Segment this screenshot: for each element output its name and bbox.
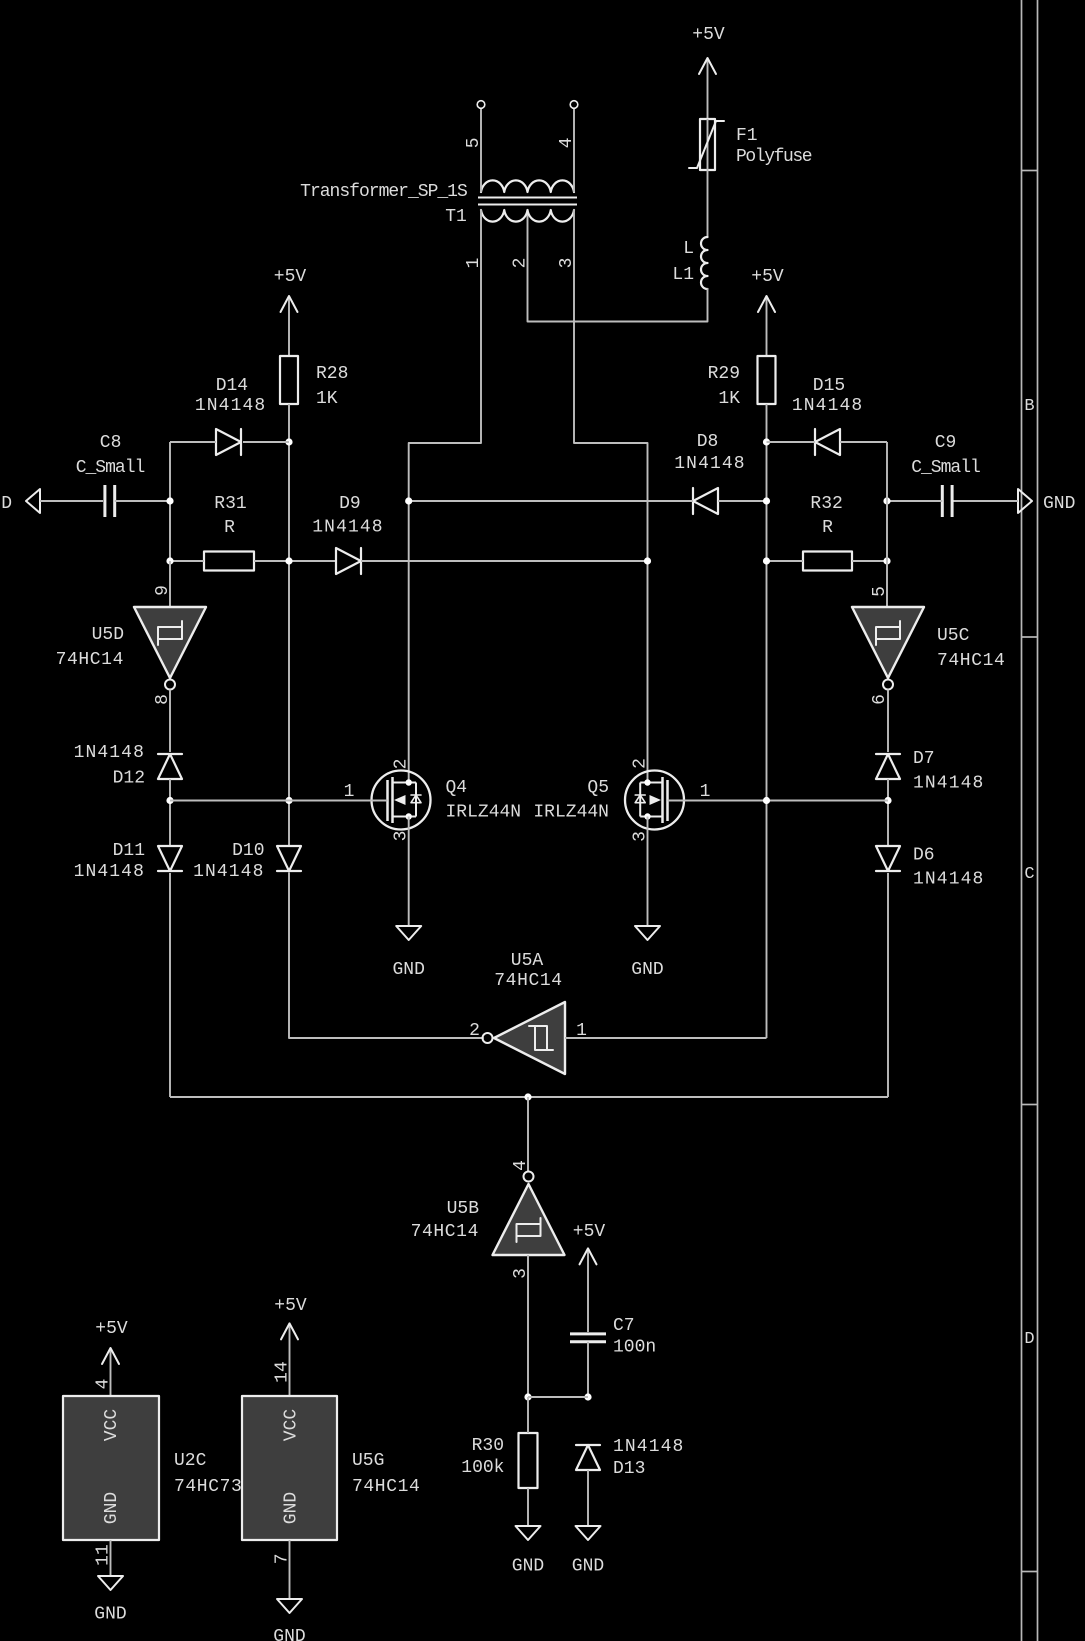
svg-text:74HC73: 74HC73 <box>174 1477 242 1497</box>
svg-text:GND: GND <box>0 494 12 514</box>
power +5V (R28) <box>288 296 290 356</box>
wire bottom bus <box>170 1096 888 1098</box>
wire U5G pin7 to GND <box>289 1540 291 1599</box>
svg-text:1N4148: 1N4148 <box>674 454 745 474</box>
svg-text:R31: R31 <box>214 494 246 514</box>
power +5V (R29) <box>766 296 768 356</box>
svg-text:1N4148: 1N4148 <box>913 774 984 794</box>
svg-text:1: 1 <box>344 782 355 802</box>
wire C8 to U5D input column <box>115 500 170 502</box>
junction bottom bus / U5B output column <box>524 1093 531 1100</box>
svg-text:+5V: +5V <box>274 1296 307 1316</box>
T1 pin 4 lead and open end <box>573 109 575 193</box>
svg-text:C9: C9 <box>935 433 957 453</box>
svg-text:1N4148: 1N4148 <box>613 1437 684 1457</box>
wire D14 cathode to junction <box>243 441 289 443</box>
power GND (U5G) <box>277 1599 302 1613</box>
transistor Q4 (IRLZ44N) symbol <box>372 771 431 830</box>
wire U5D input column upper <box>169 442 171 561</box>
svg-text:74HC14: 74HC14 <box>411 1222 479 1242</box>
svg-text:R: R <box>224 518 235 538</box>
svg-text:L1: L1 <box>672 265 694 285</box>
wire bus to U5B output <box>527 1097 529 1172</box>
svg-text:U5B: U5B <box>447 1199 480 1219</box>
svg-text:74HC14: 74HC14 <box>352 1477 420 1497</box>
wire R30 top <box>527 1397 529 1433</box>
svg-text:+5V: +5V <box>573 1222 606 1242</box>
wire Q4 gate row <box>170 800 388 802</box>
svg-text:Q4: Q4 <box>446 778 468 798</box>
svg-text:VCC: VCC <box>282 1409 302 1442</box>
wire D6 to bottom bus <box>887 873 889 1097</box>
IC U2C power unit box <box>63 1396 159 1540</box>
wire Q4 drain column to D8 cathode <box>409 500 693 502</box>
diode D6 symbol <box>876 846 900 871</box>
svg-text:2: 2 <box>469 1021 480 1041</box>
diode D12 symbol <box>158 754 182 779</box>
svg-text:74HC14: 74HC14 <box>56 650 124 670</box>
resistor R31 symbol <box>204 552 254 571</box>
wire R28 bottom to D14/D10 column <box>288 404 290 846</box>
svg-text:100n: 100n <box>613 1338 656 1358</box>
resistor R30 symbol <box>519 1433 538 1488</box>
diode D8 symbol <box>693 488 718 514</box>
polyfuse F1 symbol <box>700 119 715 170</box>
wire junction row <box>528 1396 588 1398</box>
wire D15 anode to U5C input column <box>840 441 887 443</box>
wire R30 to GND <box>527 1488 529 1526</box>
svg-text:IRLZ44N: IRLZ44N <box>446 803 522 823</box>
capacitor C9 symbol <box>941 485 944 517</box>
svg-text:6: 6 <box>870 694 890 705</box>
junction Q5 gate / R29 column <box>763 797 770 804</box>
sheet border tick A/B <box>1022 170 1038 172</box>
svg-text:D8: D8 <box>697 432 719 452</box>
power GND (Q4 source) <box>396 926 421 940</box>
svg-text:B: B <box>1024 397 1034 416</box>
power +5V (F1 top) <box>707 58 709 119</box>
svg-text:4: 4 <box>511 1160 531 1171</box>
svg-text:2: 2 <box>392 759 412 770</box>
svg-text:U5A: U5A <box>511 951 544 971</box>
svg-text:U5D: U5D <box>92 625 124 645</box>
junction D9 wire / Q5 drain column <box>644 557 651 564</box>
svg-text:F1: F1 <box>736 126 758 146</box>
svg-text:GND: GND <box>1043 494 1075 514</box>
capacitor C8 symbol <box>103 485 106 517</box>
wire U5C output to D7 <box>887 690 889 753</box>
svg-text:GND: GND <box>631 960 663 980</box>
svg-text:1: 1 <box>700 782 711 802</box>
wire Q5 gate row <box>668 800 889 802</box>
svg-text:1N4148: 1N4148 <box>913 870 984 890</box>
svg-text:1N4148: 1N4148 <box>792 396 863 416</box>
power GND (R30) <box>516 1526 541 1540</box>
wire T1 pin3 down to Q5 drain <box>574 210 648 783</box>
wire U2C pin11 to GND <box>110 1540 112 1576</box>
wire D15 row to U5C input <box>886 442 888 607</box>
wire D13 to GND <box>587 1470 589 1526</box>
wire Q4 source to GND <box>408 817 410 927</box>
svg-text:+5V: +5V <box>274 267 307 287</box>
junction D7/D6 gate row (right) <box>884 797 891 804</box>
svg-text:U2C: U2C <box>174 1451 207 1471</box>
svg-text:C_Small: C_Small <box>911 458 980 478</box>
svg-text:100k: 100k <box>461 1458 504 1478</box>
junction R32 / U5C column <box>883 557 890 564</box>
global label GND (left) <box>26 489 40 513</box>
transformer T1 secondary winding <box>481 180 574 192</box>
IC U5G power unit box <box>242 1396 337 1540</box>
svg-text:VCC: VCC <box>102 1409 122 1442</box>
sheet border tick D/E <box>1022 1571 1038 1573</box>
svg-text:D10: D10 <box>232 841 264 861</box>
junction R28 bottom / D14 cathode <box>285 438 292 445</box>
svg-text:GND: GND <box>392 960 424 980</box>
svg-text:R32: R32 <box>810 494 842 514</box>
wire D12 to gate row <box>169 779 171 846</box>
svg-text:C7: C7 <box>613 1316 635 1336</box>
sheet border inner line <box>1021 0 1023 1641</box>
svg-text:D7: D7 <box>913 749 935 769</box>
junction U5D column / R31 row <box>166 557 173 564</box>
wire R29 column to R32 <box>767 560 804 562</box>
svg-text:1K: 1K <box>316 389 338 409</box>
svg-text:5: 5 <box>870 586 890 597</box>
svg-text:74HC14: 74HC14 <box>494 971 562 991</box>
svg-text:D14: D14 <box>216 376 248 396</box>
wire R31 row to U5D input <box>169 561 171 607</box>
wire R32 to U5C column <box>852 560 887 562</box>
wire L1 to T1 pin2 (via +5V rail elbow) <box>528 210 708 322</box>
svg-text:9: 9 <box>153 585 173 596</box>
power GND (U2C) <box>98 1576 123 1590</box>
diode D9 symbol <box>336 548 361 574</box>
svg-text:5: 5 <box>464 137 484 148</box>
diode D10 symbol <box>277 846 301 871</box>
diode D7 symbol <box>876 754 900 779</box>
resistor R32 symbol <box>803 552 852 571</box>
svg-text:4: 4 <box>557 137 577 148</box>
junction R28 column / R31 row <box>285 557 292 564</box>
global label GND (right) <box>1018 489 1032 513</box>
wire R29 bottom to U5A input column <box>766 404 768 1038</box>
wire U5C column to C9 <box>887 500 942 502</box>
svg-text:1K: 1K <box>718 389 740 409</box>
svg-text:4: 4 <box>94 1379 114 1390</box>
svg-text:D13: D13 <box>613 1459 645 1479</box>
svg-text:1N4148: 1N4148 <box>195 396 266 416</box>
svg-text:GND: GND <box>102 1492 122 1524</box>
junction R29 bottom / D15 cathode <box>763 438 770 445</box>
junction Q4 drain / D8 wire <box>405 497 412 504</box>
wire C9 to GND label <box>952 500 1018 502</box>
wire D9 cathode to Q5 drain column <box>361 560 648 562</box>
inductor L1 symbol <box>701 237 707 289</box>
capacitor C7 symbol <box>570 1332 606 1335</box>
svg-text:GND: GND <box>572 1557 604 1577</box>
transformer T1 primary winding <box>481 210 574 222</box>
junction U5B input / R30 top <box>524 1393 531 1400</box>
power +5V (U2C) <box>110 1348 112 1396</box>
svg-text:GND: GND <box>94 1605 126 1625</box>
wire U5A input from R29 column <box>565 1037 767 1039</box>
svg-text:D: D <box>1024 1330 1034 1349</box>
svg-text:1N4148: 1N4148 <box>312 518 383 538</box>
svg-text:L: L <box>683 239 694 259</box>
wire C7 to junction row <box>587 1342 589 1397</box>
schmitt inverter U5B <box>493 1184 565 1255</box>
svg-text:+5V: +5V <box>751 267 784 287</box>
svg-text:1N4148: 1N4148 <box>74 862 145 882</box>
svg-text:1N4148: 1N4148 <box>193 862 264 882</box>
svg-text:C: C <box>1024 865 1034 884</box>
sheet border tick B/C <box>1022 636 1038 638</box>
sheet border tick C/D <box>1022 1104 1038 1106</box>
svg-text:GND: GND <box>282 1492 302 1524</box>
junction C8 / U5D column <box>166 497 173 504</box>
junction C7 / D13 top <box>584 1393 591 1400</box>
wire R31 to D9 anode <box>254 560 336 562</box>
junction C9 / U5C column <box>883 497 890 504</box>
wire GND label to C8 <box>40 500 103 502</box>
wire D8 anode to R29 column <box>718 500 767 502</box>
svg-text:+5V: +5V <box>692 25 725 45</box>
resistor R28 symbol <box>280 356 298 404</box>
wire D14 anode to U5D input column <box>170 441 216 443</box>
sheet border outer line <box>1037 0 1039 1641</box>
svg-text:R30: R30 <box>472 1436 504 1456</box>
svg-text:D6: D6 <box>913 846 935 866</box>
svg-text:GND: GND <box>512 1557 544 1577</box>
diode D15 symbol <box>815 429 840 455</box>
svg-text:74HC14: 74HC14 <box>937 651 1005 671</box>
svg-text:2: 2 <box>511 258 531 269</box>
svg-text:2: 2 <box>631 758 651 769</box>
svg-text:D9: D9 <box>339 494 361 514</box>
wire T1 pin1 down to Q4 drain <box>409 210 481 783</box>
svg-text:1N4148: 1N4148 <box>74 743 145 763</box>
wire U5D column to R31 <box>170 560 204 562</box>
svg-text:T1: T1 <box>445 207 467 227</box>
diode D14 symbol <box>216 429 241 455</box>
wire D7 to D6 <box>887 779 889 846</box>
svg-text:U5C: U5C <box>937 626 970 646</box>
wire F1 to L1 <box>707 170 709 237</box>
wire U5D output to D12 <box>169 690 171 753</box>
wire D10 to U5A output <box>289 873 483 1038</box>
svg-text:Transformer_SP_1S: Transformer_SP_1S <box>300 182 467 202</box>
schmitt inverter U5D <box>134 607 206 678</box>
svg-text:R29: R29 <box>708 364 740 384</box>
svg-text:C_Small: C_Small <box>76 458 145 478</box>
power GND (Q5 source) <box>635 926 660 940</box>
junction D12/D11 gate row (left) <box>166 797 173 804</box>
svg-text:U5G: U5G <box>352 1451 384 1471</box>
svg-text:D11: D11 <box>113 841 145 861</box>
svg-text:IRLZ44N: IRLZ44N <box>533 803 609 823</box>
resistor R29 symbol <box>758 356 776 404</box>
junction R28 column / gate row <box>285 797 292 804</box>
power GND (D13) <box>576 1526 601 1540</box>
svg-text:C8: C8 <box>100 433 122 453</box>
T1 pin 5 lead and open end <box>480 109 482 193</box>
wire junction to D15 cathode <box>767 441 816 443</box>
svg-text:D12: D12 <box>113 768 145 788</box>
wire Q5 source to GND <box>647 817 649 927</box>
power +5V (U5G) <box>289 1323 291 1396</box>
svg-text:Polyfuse: Polyfuse <box>736 147 812 167</box>
svg-text:+5V: +5V <box>95 1319 128 1339</box>
wire U5B input to R30/C7 row <box>527 1255 529 1397</box>
diode D13 symbol <box>576 1445 600 1470</box>
schmitt inverter U5A <box>494 1002 565 1074</box>
svg-text:R: R <box>822 518 833 538</box>
diode D11 symbol <box>158 846 182 871</box>
transformer T1 core <box>478 197 577 199</box>
schmitt inverter U5C <box>852 607 924 678</box>
wire D11 to bottom bus <box>169 873 171 1097</box>
svg-text:R28: R28 <box>316 364 348 384</box>
junction R29 column / R32 row <box>763 557 770 564</box>
svg-text:GND: GND <box>273 1627 305 1641</box>
junction D8 anode / R29 column <box>763 497 770 504</box>
svg-text:D15: D15 <box>813 376 845 396</box>
power +5V (C7) <box>587 1248 589 1332</box>
svg-text:14: 14 <box>273 1361 293 1383</box>
svg-text:Q5: Q5 <box>587 778 609 798</box>
transistor Q5 (IRLZ44N) symbol <box>625 771 684 830</box>
